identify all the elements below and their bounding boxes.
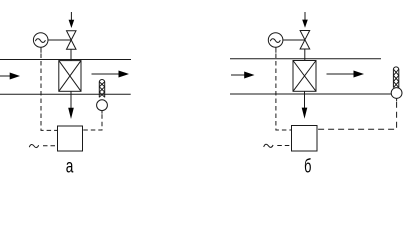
wire valve stem to box a (70, 49, 72, 60)
svg-text:а: а (66, 155, 74, 177)
heat exchanger box a (59, 61, 81, 92)
wire duct top line a (0, 59, 131, 61)
control valve b (300, 31, 310, 50)
wire circle to valve b (283, 39, 305, 41)
wire duct bottom line b (230, 93, 391, 95)
svg-text:б: б (304, 156, 311, 177)
dashed signal line right a (83, 114, 102, 130)
outlet flow arrow b (327, 71, 365, 78)
sensor bulb circle a (97, 100, 108, 111)
inlet flow arrow b (231, 72, 255, 79)
control valve a (67, 31, 77, 50)
dashed power line a (43, 145, 58, 147)
temperature controller sensor circle a (33, 33, 48, 48)
exhaust arrow below box b (302, 91, 308, 119)
outlet flow arrow a (92, 71, 130, 78)
outlet temperature sensor coil b (393, 67, 398, 88)
wire bulb stem b (396, 98, 398, 101)
wire duct top line b (230, 58, 381, 60)
wire circle stem b (275, 47, 277, 52)
power tilde b (264, 144, 273, 147)
controller box b (292, 126, 318, 152)
wire circle stem a (40, 47, 42, 52)
inlet flow arrow a (0, 73, 20, 80)
heat exchanger box b (293, 61, 316, 92)
wire circle to valve a (48, 39, 71, 41)
wire bulb stem a (101, 111, 103, 114)
dashed power line b (277, 145, 291, 147)
dashed signal line left b (276, 54, 292, 131)
dashed signal line right b (317, 102, 397, 130)
temperature controller sensor circle b (268, 33, 283, 48)
duct temperature sensor coil a (99, 79, 104, 97)
wire valve stem to box b (304, 49, 306, 61)
sensor bulb circle b (391, 88, 402, 99)
power tilde a (29, 144, 38, 147)
exhaust arrow below box a (68, 91, 74, 119)
controller box a (58, 126, 83, 151)
wire duct bottom line a (0, 93, 131, 95)
dashed signal line left a (41, 54, 58, 131)
actuator arrow into valve a (69, 12, 75, 28)
actuator arrow into valve b (302, 12, 308, 28)
